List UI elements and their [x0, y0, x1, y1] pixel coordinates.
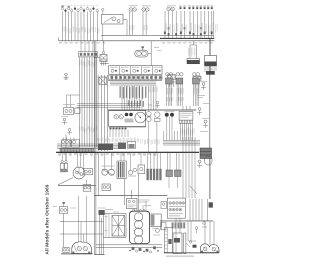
ground baseline right: [164, 252, 219, 254]
T symbol right of labels: [148, 101, 160, 108]
feeds to hatched boxes pair: [168, 152, 198, 194]
center labels above bulkhead: [96, 138, 160, 145]
switch symbol small 1: [62, 116, 69, 125]
regulator outer frame: [104, 214, 127, 238]
label and wire left of fuse row: [99, 59, 109, 64]
switch symbol small 2: [67, 128, 72, 135]
dip switch bottom left: [60, 202, 68, 214]
battery label box: [204, 68, 217, 73]
turn flasher box: [102, 15, 124, 25]
wires below cluster to band: [110, 130, 128, 137]
fuse dark box above regulator: [98, 208, 106, 216]
labels below bulkhead line: [58, 153, 157, 156]
misc small labels: [53, 47, 162, 209]
wires cluster to rail: [183, 106, 190, 110]
starter feed wires: [79, 196, 87, 242]
bus line middle dark: [160, 37, 214, 39]
hatch row below rail: [172, 222, 186, 228]
center harness drops: [122, 85, 158, 110]
lower ladder harness: [77, 103, 140, 105]
wiper motor symbol: [83, 180, 91, 191]
bus line main: [59, 38, 215, 41]
column switch symbol A: [168, 75, 176, 87]
connector row under fuse row: [109, 75, 162, 80]
right band harness lines: [163, 141, 200, 146]
tall dark switch box: [117, 161, 126, 179]
clock dial: [155, 112, 160, 122]
dark fuse boxes center band: [98, 142, 136, 151]
left connector strip hatched: [60, 148, 94, 153]
ignition-starter switch boxes: [63, 95, 80, 115]
center wire labels block 2: [128, 100, 144, 107]
column switch symbol B: [193, 76, 201, 88]
generator double dome: [200, 244, 219, 253]
bulkhead connector line thick: [56, 151, 199, 153]
switch pack box: [179, 112, 193, 121]
top lamp symbols row: [61, 5, 104, 12]
caption: All Models after October 1969: [45, 184, 50, 254]
wires bulkhead to headlamp: [78, 152, 84, 168]
engine block: [130, 210, 150, 244]
heater switch cluster C: [193, 73, 201, 106]
control box above engine: [127, 199, 138, 209]
main double drop wires: [94, 41, 98, 255]
mini connector row left: [79, 41, 98, 57]
bottom center rails: [96, 245, 162, 248]
center vertical harness: [98, 75, 108, 151]
instrument circle pairs top: [129, 5, 176, 11]
wires dropping band right: [183, 137, 195, 166]
right dark connector box: [200, 148, 212, 159]
instrument cluster base strip: [109, 127, 146, 129]
long horizontal rail lower: [94, 195, 167, 197]
ignition switch box: [94, 41, 107, 66]
dark connector top right mid: [206, 71, 215, 75]
harness multi-line band: [57, 144, 121, 149]
labels right of control box: [139, 200, 152, 207]
lighting relay: [60, 152, 67, 172]
instrument panel fuse row: [109, 66, 162, 75]
horn oval: [135, 41, 151, 66]
center wire labels block 1: [120, 86, 147, 98]
wiper switch symbol lower: [102, 184, 111, 191]
panel gauges pair: [102, 166, 115, 176]
gauge pair right of cluster: [146, 112, 151, 122]
right column lower wires: [195, 159, 210, 234]
headlamp circle: [73, 167, 85, 179]
generator marks: [186, 241, 197, 248]
wiring ladder harness: [77, 80, 162, 107]
right column symbol 3: [202, 118, 209, 128]
heater switch cluster B: [176, 73, 184, 106]
ignition coil box: [151, 214, 161, 236]
instrument cluster box: [109, 111, 146, 127]
main right vertical feed wire: [209, 64, 211, 199]
connector strip right of gauges: [147, 169, 162, 181]
wire down left: [65, 135, 67, 161]
dark connector right of solenoid: [209, 202, 213, 207]
feed wires below bulkhead: [105, 152, 161, 170]
right column symbol 1: [201, 81, 208, 90]
small gauges next: [128, 168, 137, 176]
regulator inner box: [112, 216, 125, 237]
left lower rail: [58, 184, 96, 186]
x-box small left: [99, 77, 107, 85]
glyphs left of solenoid box: [161, 202, 167, 209]
switch pack comb: [179, 120, 193, 123]
drops from fuse row to ladder: [112, 74, 156, 80]
tall cell box bottom right: [173, 233, 182, 254]
pointer diagonal wire: [58, 178, 73, 185]
left vertical bundle: [79, 57, 96, 147]
starter motor dome: [72, 242, 92, 254]
wires below fuse box left: [94, 209, 119, 255]
right column symbol 2: [197, 108, 202, 115]
top section wires dropping to bus: [63, 11, 214, 41]
bottom left long wires: [60, 214, 104, 248]
narrow tall box: [184, 233, 186, 254]
box below rail far left: [161, 223, 167, 230]
horn symbol bottom: [63, 248, 69, 253]
small oval cylinder right: [205, 156, 213, 165]
tick labels under bus: [59, 42, 62, 43]
bus line upper: [101, 34, 214, 36]
small box 138: [138, 165, 145, 174]
wires through solenoid area: [176, 199, 214, 245]
switch stick right: [197, 160, 202, 168]
solenoid box bottom right big: [167, 198, 185, 218]
battery dark box: [205, 39, 217, 72]
drop wires through rail: [125, 166, 195, 211]
warning lamp dark pair: [165, 111, 175, 117]
bottom caption smudge: [166, 256, 194, 257]
hatched boxes pair lower right: [166, 170, 181, 177]
fuse block dark left: [187, 41, 200, 64]
aerial symbol: [64, 73, 69, 80]
ground baseline left: [61, 253, 93, 255]
rail under solenoid: [160, 220, 213, 222]
main horizontal rail mid: [108, 109, 197, 111]
heater switch cluster A: [166, 73, 174, 106]
headlamp junction box: [84, 169, 93, 175]
bottom small symbols: [129, 246, 159, 253]
top right connector symbols: [179, 5, 213, 9]
right column labels: [197, 95, 210, 132]
left fuse cluster circles: [61, 138, 79, 148]
svg-text:All Models after October 1: All Models after October 1969: [45, 184, 50, 254]
wires below rail center: [149, 117, 195, 152]
tall cell box bottom right left: [165, 228, 173, 253]
wire labels top section: [59, 23, 217, 43]
